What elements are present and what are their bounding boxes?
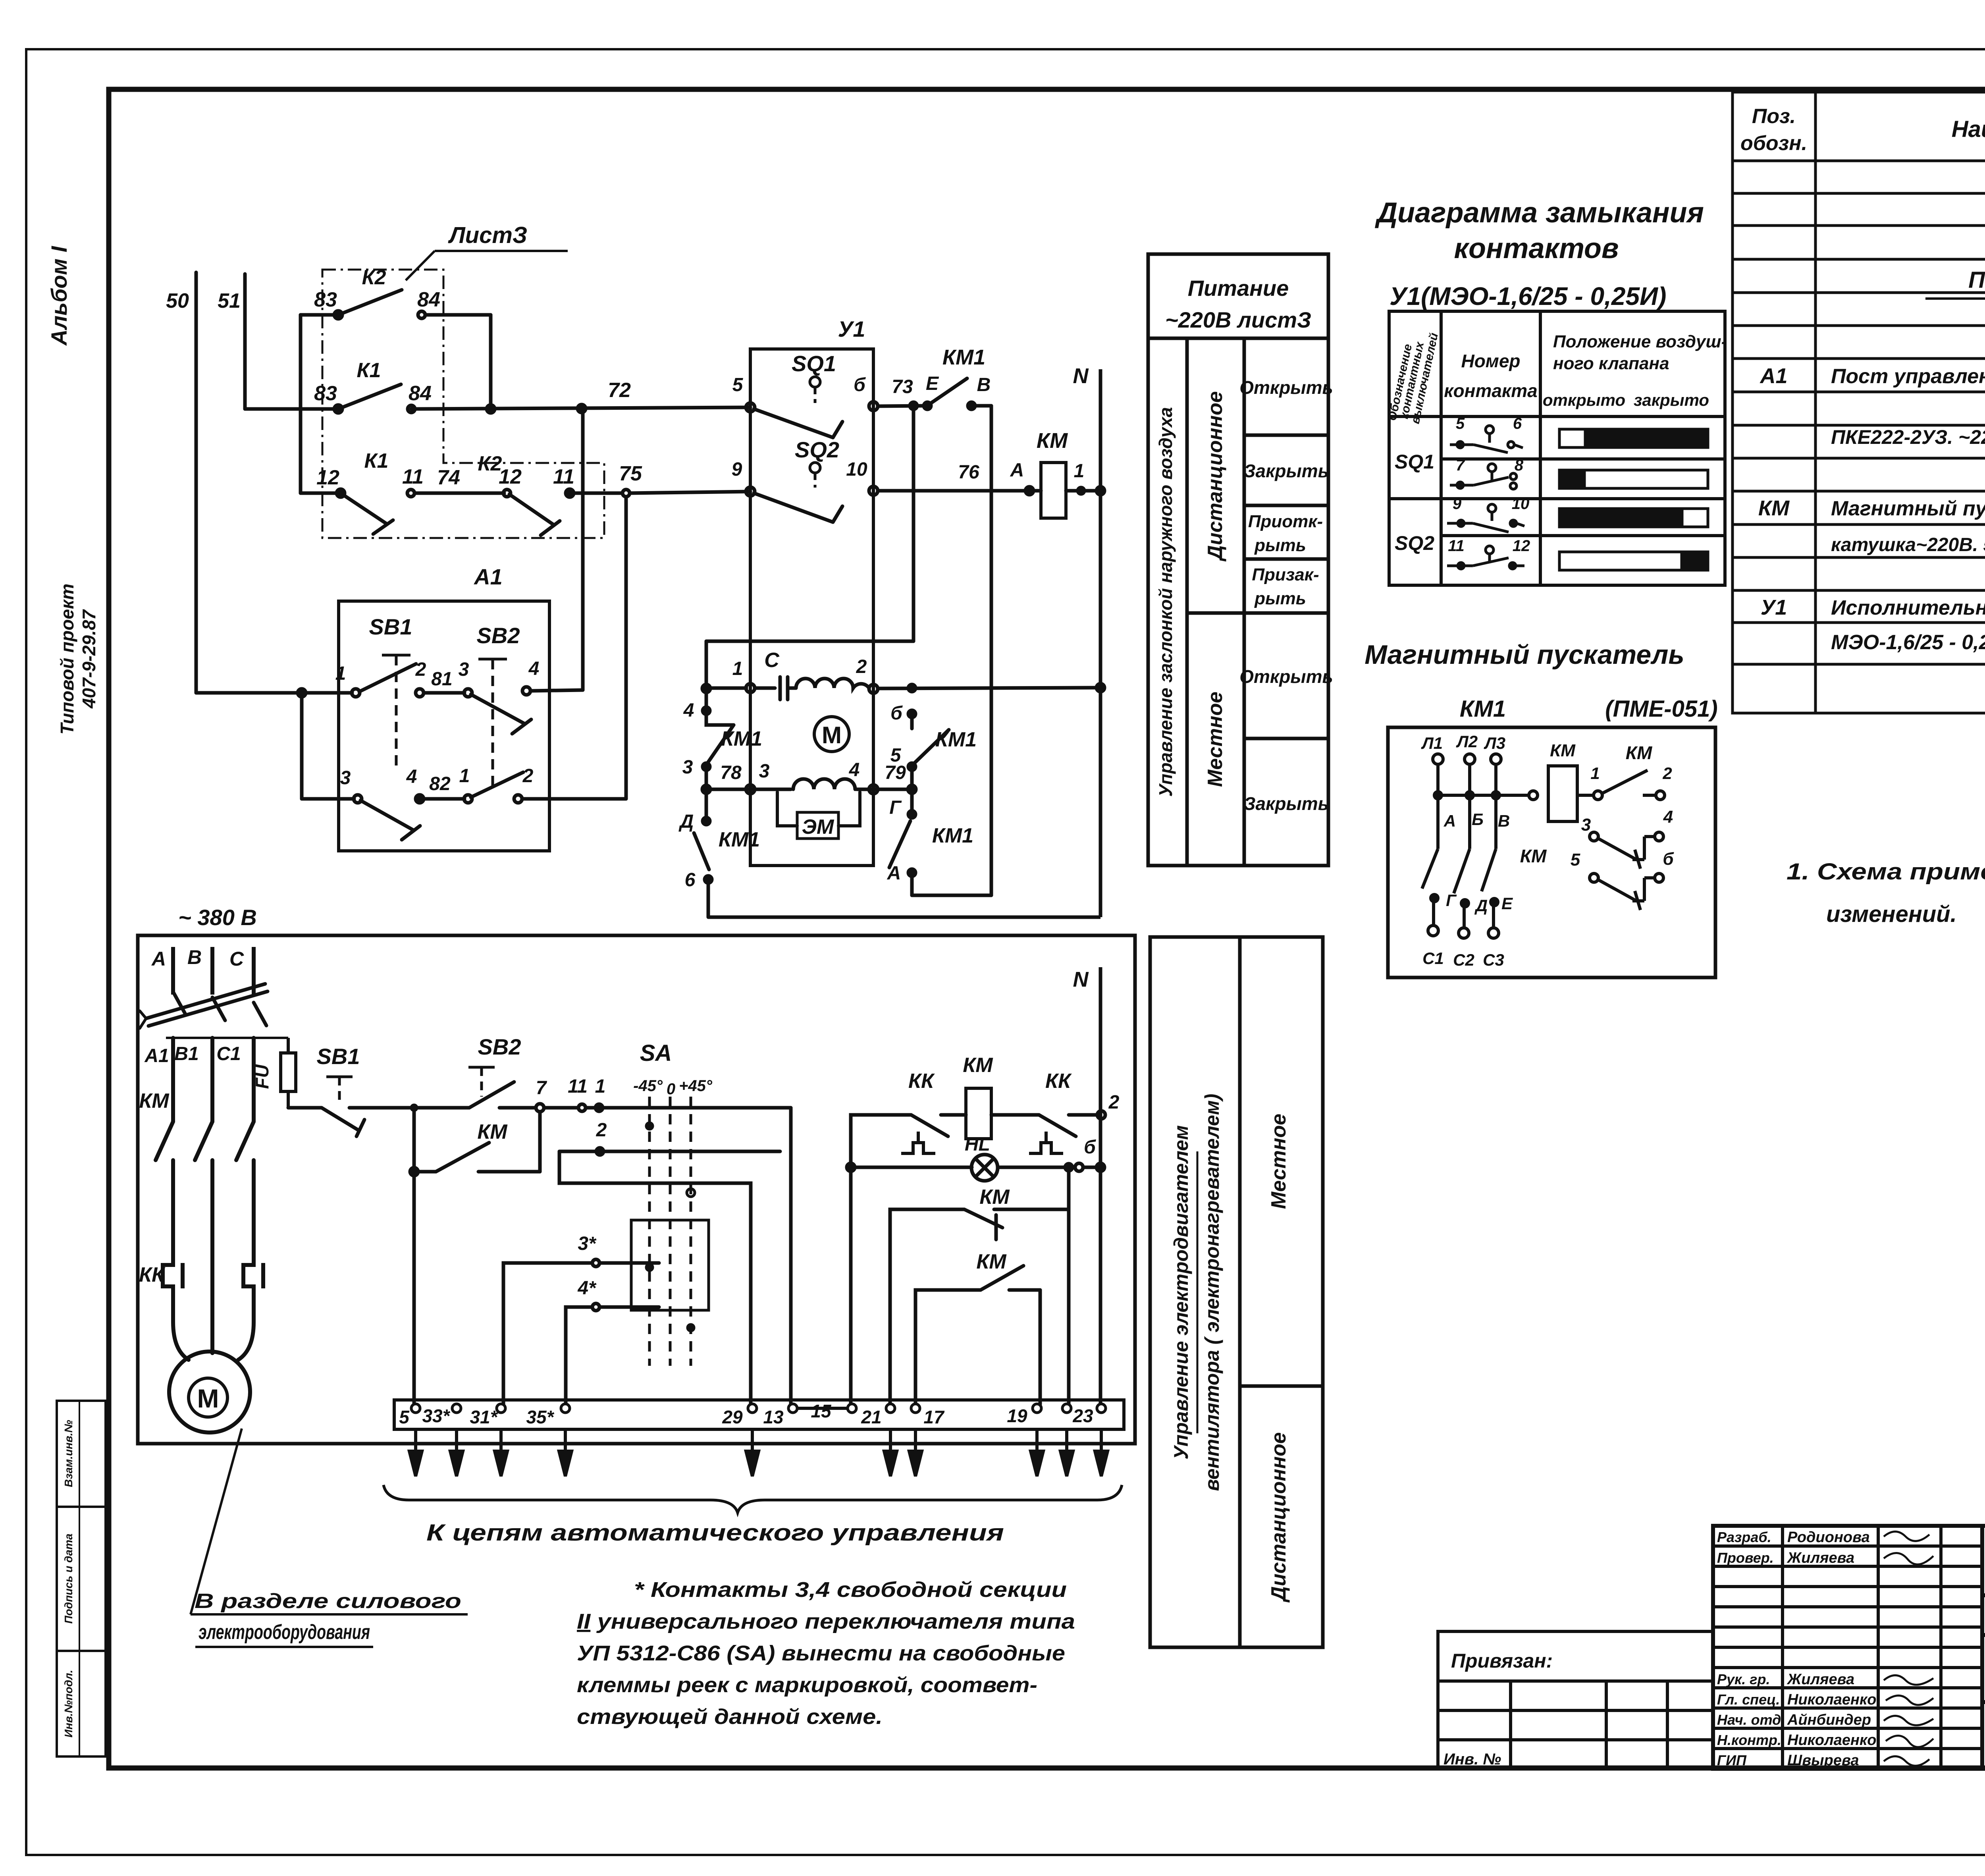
svg-text:FU: FU	[252, 1064, 272, 1089]
SA row 2	[559, 1148, 780, 1404]
svg-text:2: 2	[1108, 1092, 1120, 1113]
signatures squiggles	[1884, 1532, 1933, 1766]
svg-text:23: 23	[1072, 1406, 1093, 1426]
svg-text:84: 84	[409, 382, 432, 405]
position bars	[1559, 429, 1708, 570]
svg-text:Инв.№подл.: Инв.№подл.	[62, 1670, 75, 1738]
svg-text:Магнитный пускатель: Магнитный пускатель	[1364, 640, 1684, 670]
svg-text:35*: 35*	[526, 1407, 554, 1427]
svg-text:3: 3	[682, 757, 693, 778]
feed panel (Питание ~220В лист3)	[1148, 254, 1328, 866]
button SB1 stop	[288, 1108, 410, 1136]
svg-text:КМ: КМ	[477, 1120, 508, 1143]
svg-text:С2: С2	[1453, 951, 1474, 969]
button SB2 start	[418, 1082, 544, 1112]
svg-text:КМ1: КМ1	[935, 728, 977, 751]
svg-text:19: 19	[1007, 1406, 1027, 1426]
svg-text:21: 21	[861, 1407, 881, 1427]
lower contacts row of A1	[302, 497, 626, 840]
svg-text:Е: Е	[926, 373, 939, 394]
svg-text:11: 11	[402, 465, 424, 488]
terminal circles	[411, 1404, 1106, 1413]
svg-text:У1: У1	[1761, 596, 1787, 619]
svg-text:7: 7	[536, 1078, 547, 1099]
svg-text:12: 12	[316, 466, 339, 489]
svg-text:Дистанционное: Дистанционное	[1204, 391, 1227, 561]
svg-text:76: 76	[958, 462, 979, 483]
svg-text:КМ1: КМ1	[721, 727, 762, 750]
svg-text:клеммы реек с маркировкой, соо: клеммы реек с маркировкой, соответ-	[577, 1673, 1037, 1697]
wire B loop	[912, 406, 991, 895]
svg-text:Местное: Местное	[1204, 692, 1227, 787]
row KK-KM-KK	[851, 1111, 1105, 1404]
svg-text:15: 15	[811, 1401, 832, 1421]
bottom wire to N	[708, 916, 1100, 919]
svg-text:~220В листЗ: ~220В листЗ	[1165, 307, 1311, 332]
svg-text:Управление заслонкой наружно: Управление заслонкой наружного воздуха	[1155, 407, 1176, 796]
svg-text:Наименование: Наименование	[1952, 116, 1985, 142]
svg-text:5: 5	[399, 1407, 410, 1427]
terminal strip	[394, 1400, 1124, 1429]
svg-text:74: 74	[437, 466, 460, 489]
svg-text:3*: 3*	[578, 1233, 597, 1254]
thermal KK symbols	[901, 1132, 1063, 1153]
svg-text:SQ2: SQ2	[1395, 532, 1434, 554]
svg-text:КМ: КМ	[1626, 742, 1653, 763]
svg-text:КМ: КМ	[963, 1054, 993, 1077]
svg-text:78: 78	[720, 762, 742, 783]
svg-text:У1: У1	[838, 316, 865, 341]
svg-text:КМ1: КМ1	[719, 828, 760, 851]
svg-text:Жиляева: Жиляева	[1786, 1550, 1854, 1566]
svg-text:Управление электродвигателем: Управление электродвигателем	[1170, 1125, 1192, 1460]
svg-text:КК: КК	[139, 1263, 166, 1286]
svg-text:ствующей данной схеме.: ствующей данной схеме.	[577, 1705, 883, 1729]
fan motor control panel	[1150, 937, 1323, 1647]
svg-text:С: С	[229, 948, 244, 970]
lamp HL row	[847, 1155, 1104, 1181]
wire 73 drop	[706, 406, 913, 708]
svg-text:81: 81	[431, 669, 452, 690]
svg-text:ГИП: ГИП	[1717, 1752, 1747, 1768]
svg-text:А: А	[1443, 812, 1456, 830]
contactor coil KM power	[966, 1088, 991, 1139]
svg-text:50: 50	[166, 289, 189, 312]
contact diagram table	[1389, 311, 1725, 585]
svg-text:А: А	[887, 863, 901, 884]
svg-text:* Контакты 3,4 свободной секци: * Контакты 3,4 свободной секции	[634, 1578, 1067, 1602]
svg-text:КК: КК	[1045, 1070, 1072, 1093]
svg-text:31*: 31*	[470, 1407, 498, 1427]
svg-text:1: 1	[1074, 461, 1085, 482]
svg-text:рыть: рыть	[1254, 589, 1306, 608]
svg-text:2: 2	[522, 765, 534, 787]
svg-text:75: 75	[619, 462, 642, 485]
svg-text:Д: Д	[1474, 896, 1488, 915]
svg-text:КМ: КМ	[1550, 741, 1576, 760]
svg-text:С1: С1	[216, 1043, 241, 1064]
svg-text:А: А	[1010, 460, 1024, 481]
svg-text:Разраб.: Разраб.	[1717, 1529, 1771, 1545]
title block	[1713, 1526, 1985, 1769]
svg-text:Жиляева: Жиляева	[1786, 1671, 1854, 1688]
svg-text:-45°: -45°	[633, 1077, 663, 1095]
svg-text:Е: Е	[1501, 894, 1513, 913]
svg-text:3: 3	[459, 659, 469, 680]
svg-text:Пост управления кнопочный: Пост управления кнопочный	[1831, 365, 1985, 388]
svg-text:10: 10	[846, 459, 867, 480]
svg-text:83: 83	[314, 382, 337, 405]
svg-text:Л1: Л1	[1421, 734, 1443, 752]
svg-text:SB1: SB1	[317, 1044, 360, 1069]
svg-text:8: 8	[1515, 457, 1524, 474]
svg-text:ПКЕ222-2УЗ. ~220В ТУ16.526.2: ПКЕ222-2УЗ. ~220В ТУ16.526.216-71	[1831, 426, 1985, 448]
svg-text:КМ: КМ	[1520, 846, 1547, 866]
svg-text:Инв. №: Инв. №	[1443, 1751, 1501, 1768]
svg-text:УП 5312-С86 (SA) вынести на св: УП 5312-С86 (SA) вынести на свободные	[577, 1641, 1065, 1665]
leader to note	[191, 1429, 468, 1614]
aux contact 3-4	[1590, 832, 1663, 869]
svg-text:17: 17	[923, 1407, 945, 1427]
svg-text:84: 84	[417, 288, 440, 311]
svg-text:вентилятора ( электронагревате: вентилятора ( электронагревателем)	[1201, 1094, 1223, 1491]
svg-text:КМ: КМ	[1758, 496, 1790, 520]
svg-text:Б: Б	[1472, 810, 1484, 829]
svg-text:Взам.инв.№: Взам.инв.№	[62, 1420, 75, 1487]
svg-text:29: 29	[722, 1407, 743, 1427]
svg-text:Дистанционное: Дистанционное	[1267, 1432, 1290, 1602]
svg-text:Местное: Местное	[1267, 1114, 1290, 1209]
contact KM power poles	[156, 1122, 173, 1160]
motor M	[169, 1352, 250, 1433]
node 75	[622, 490, 630, 497]
svg-text:Н.контр.: Н.контр.	[1717, 1732, 1781, 1748]
svg-text:9: 9	[732, 459, 742, 480]
svg-text:Николаенко: Николаенко	[1787, 1691, 1876, 1708]
wire N	[1099, 369, 1102, 917]
svg-text:В: В	[187, 946, 202, 968]
svg-text:10: 10	[1512, 495, 1530, 513]
svg-text:закрыто: закрыто	[1634, 391, 1709, 409]
limit switch SQ2	[746, 486, 878, 522]
svg-text:SB2: SB2	[478, 1034, 521, 1059]
svg-text:КК: КК	[908, 1070, 935, 1093]
svg-text:контактов: контактов	[1454, 233, 1619, 264]
svg-text:1. Схема применима для систем: 1. Схема применима для систем П1, П2, П3…	[1786, 859, 1985, 885]
svg-text:В: В	[1498, 812, 1510, 830]
node j72b	[578, 405, 586, 413]
svg-text:72: 72	[608, 379, 631, 402]
svg-text:У1(МЭО-1,6/25 - 0,25И): У1(МЭО-1,6/25 - 0,25И)	[1389, 282, 1666, 310]
svg-text:5: 5	[732, 374, 744, 395]
svg-text:КМ1: КМ1	[932, 824, 973, 847]
svg-text:Типовой проект: Типовой проект	[57, 584, 77, 735]
svg-text:Положение воздуш-: Положение воздуш-	[1553, 332, 1727, 351]
svg-text:ЭМ: ЭМ	[802, 816, 834, 839]
svg-text:12: 12	[1513, 537, 1530, 555]
wire 76 and contactor coil KM	[878, 487, 1041, 495]
svg-text:В: В	[977, 374, 991, 395]
svg-text:Гл. спец.: Гл. спец.	[1717, 1691, 1780, 1708]
junction	[410, 1104, 418, 1112]
limit switch SQ1	[746, 402, 878, 438]
svg-text:Закрыть: Закрыть	[1244, 793, 1329, 814]
svg-text:А1: А1	[144, 1045, 169, 1066]
svg-text:К2: К2	[362, 266, 386, 289]
svg-text:б: б	[890, 703, 903, 724]
svg-text:Диаграмма замыкания: Диаграмма замыкания	[1374, 197, 1704, 229]
svg-text:К1: К1	[364, 449, 389, 472]
svg-text:2: 2	[596, 1120, 607, 1141]
capacitor C row	[702, 677, 1104, 700]
thermal elements KK	[163, 1258, 263, 1294]
svg-text:К1: К1	[357, 359, 381, 382]
button SB1	[196, 664, 464, 697]
svg-text:электрооборудования: электрооборудования	[198, 1621, 370, 1644]
button SB2	[464, 687, 583, 734]
svg-text:SQ1: SQ1	[1395, 451, 1434, 473]
svg-text:2: 2	[1662, 764, 1672, 783]
wire to terminal 5	[412, 1172, 416, 1404]
right branch contacts KM1	[889, 710, 949, 895]
svg-text:N: N	[1073, 364, 1089, 388]
svg-text:М: М	[197, 1384, 219, 1413]
svg-text:б: б	[854, 374, 866, 395]
svg-text:В разделе силового: В разделе силового	[195, 1590, 461, 1613]
svg-text:Призак-: Призак-	[1252, 565, 1319, 584]
Privyazan box	[1438, 1631, 1713, 1769]
svg-text:Нач. отд.: Нач. отд.	[1717, 1712, 1785, 1728]
wires into motor	[173, 1294, 254, 1360]
power box	[138, 935, 1135, 1444]
svg-text:В1: В1	[174, 1043, 198, 1064]
wire bus 51	[243, 274, 247, 409]
contact K1 83-84	[334, 405, 342, 413]
contact KM 1-2	[1577, 770, 1665, 800]
svg-text:4: 4	[528, 658, 540, 679]
svg-text:3: 3	[340, 767, 351, 789]
svg-text:К цепям автоматического управл: К цепям автоматического управления	[426, 1520, 1004, 1546]
svg-text:4: 4	[1663, 807, 1673, 827]
svg-text:КМ: КМ	[1037, 429, 1068, 453]
svg-text:Л2: Л2	[1456, 732, 1478, 751]
svg-text:С1: С1	[1422, 949, 1444, 968]
svg-text:А1: А1	[1759, 364, 1787, 388]
node j72a	[487, 405, 495, 413]
SA row 3	[503, 1259, 659, 1404]
svg-text:II универсального переключател: II универсального переключателя типа	[577, 1610, 1075, 1633]
svg-text:9: 9	[1453, 495, 1462, 513]
svg-text:изменений.: изменений.	[1826, 901, 1957, 927]
svg-text:SB1: SB1	[369, 614, 412, 639]
svg-text:ного клапана: ного клапана	[1553, 354, 1669, 373]
SA free section box	[631, 1220, 709, 1310]
dash-dot boundary List3	[322, 270, 604, 538]
svg-text:Магнитный пускатель ПМЕ-051: Магнитный пускатель ПМЕ-051	[1831, 497, 1985, 520]
svg-text:82: 82	[429, 773, 451, 794]
aux contact 5-6	[1590, 873, 1663, 910]
contact K1 12-11	[301, 492, 341, 495]
svg-text:6: 6	[685, 870, 696, 891]
svg-text:А: А	[151, 948, 166, 970]
svg-text:6: 6	[1513, 415, 1522, 432]
svg-text:SQ2: SQ2	[795, 437, 839, 462]
fuse FU	[281, 1038, 296, 1108]
svg-text:5: 5	[1571, 850, 1580, 870]
svg-text:1: 1	[1590, 764, 1600, 783]
svg-text:~ 380 В: ~ 380 В	[178, 905, 257, 930]
svg-text:Номер: Номер	[1461, 351, 1520, 371]
svg-text:Приотк-: Приотк-	[1248, 512, 1323, 531]
svg-text:7: 7	[1456, 457, 1465, 474]
svg-text:SA: SA	[640, 1040, 672, 1066]
svg-text:1: 1	[459, 765, 470, 787]
arrows to automation	[409, 1429, 1108, 1476]
svg-text:МЭО-1,6/25 - 0,25И: МЭО-1,6/25 - 0,25И	[1831, 631, 1985, 654]
aux contact KM (to terminals 17-19)	[915, 1266, 1040, 1404]
svg-text:Провер.: Провер.	[1717, 1550, 1774, 1566]
bridge 13-15	[797, 1407, 848, 1410]
SA row 4	[566, 1303, 659, 1404]
svg-text:2: 2	[856, 656, 867, 677]
svg-text:33*: 33*	[422, 1406, 450, 1426]
brake EM branch	[777, 792, 860, 826]
svg-text:5: 5	[1456, 415, 1465, 432]
svg-text:1: 1	[732, 658, 743, 679]
contact symbols col2	[1447, 426, 1524, 569]
svg-text:4: 4	[683, 700, 694, 721]
svg-text:Рук. гр.: Рук. гр.	[1717, 1671, 1770, 1687]
svg-text:Швырева: Швырева	[1787, 1752, 1859, 1769]
svg-text:4*: 4*	[577, 1278, 597, 1299]
svg-text:А1: А1	[473, 564, 503, 589]
winding 3-4 row	[702, 779, 916, 794]
svg-text:HL: HL	[965, 1134, 990, 1155]
svg-text:рыть: рыть	[1254, 536, 1306, 555]
svg-text:КМ: КМ	[139, 1089, 170, 1112]
svg-text:КМ1: КМ1	[1460, 696, 1506, 722]
svg-text:73: 73	[892, 376, 913, 397]
contact K2 83-84	[301, 313, 338, 317]
svg-text:М: М	[822, 722, 842, 748]
svg-text:N: N	[1073, 968, 1089, 991]
wire bus 50	[195, 272, 198, 693]
wire left jog	[299, 315, 303, 493]
contact KM1 E-B	[878, 378, 991, 409]
svg-text:ЛистЗ: ЛистЗ	[448, 222, 527, 248]
svg-text:Г: Г	[1446, 891, 1457, 910]
svg-text:(ПМЕ-051): (ПМЕ-051)	[1605, 696, 1717, 722]
starter KM1 box	[1388, 727, 1715, 978]
svg-text:51: 51	[218, 289, 241, 312]
svg-text:Поз.: Поз.	[1752, 105, 1796, 128]
svg-text:4: 4	[849, 760, 860, 781]
wire: L stems to bus	[1436, 764, 1440, 795]
svg-text:0: 0	[667, 1080, 675, 1098]
svg-text:Питание: Питание	[1188, 276, 1289, 301]
svg-text:Подпись и дата: Подпись и дата	[62, 1534, 75, 1624]
svg-text:12: 12	[499, 465, 522, 488]
svg-text:С3: С3	[1483, 951, 1504, 969]
svg-text:SQ1: SQ1	[792, 351, 836, 376]
svg-text:11: 11	[1448, 537, 1465, 555]
svg-text:Привязан:: Привязан:	[1451, 1650, 1553, 1672]
actuator U1 box	[750, 349, 873, 866]
svg-text:Альбом I: Альбом I	[46, 246, 71, 346]
svg-text:1: 1	[595, 1076, 606, 1097]
wire 72 run	[245, 407, 338, 411]
svg-text:2: 2	[415, 659, 426, 680]
svg-text:б: б	[1663, 849, 1674, 869]
svg-text:Л3: Л3	[1484, 734, 1505, 752]
wire riser 74->72	[581, 409, 585, 690]
svg-text:КМ1: КМ1	[942, 345, 985, 369]
main contacts of KM (3 poles)	[1422, 795, 1499, 938]
motor M of actuator	[814, 717, 849, 752]
aux contact KM self-hold	[410, 1108, 540, 1176]
svg-text:4: 4	[406, 766, 417, 787]
svg-text:Г: Г	[889, 797, 902, 818]
push-button post A1 box	[339, 601, 549, 851]
svg-text:Айнбиндер: Айнбиндер	[1787, 1712, 1871, 1728]
svg-text:3: 3	[1581, 815, 1591, 835]
svg-text:б: б	[1084, 1137, 1096, 1158]
svg-text:катушка~220В. 50Гц ОСТ16053Б00: катушка~220В. 50Гц ОСТ16053Б001-71	[1831, 534, 1985, 555]
svg-text:Николаенко: Николаенко	[1787, 1732, 1876, 1749]
left margin stamp boxes	[57, 1401, 106, 1756]
svg-text:1: 1	[335, 663, 346, 684]
svg-text:3: 3	[759, 761, 770, 782]
svg-text:По месту: По месту	[1968, 267, 1985, 293]
svg-text:407-9-29.87: 407-9-29.87	[79, 609, 99, 709]
left branch contacts KM1	[694, 707, 734, 917]
svg-text:Закрыть: Закрыть	[1244, 461, 1329, 481]
brace	[384, 1485, 1122, 1513]
wire: coil bus	[1438, 794, 1529, 797]
svg-text:Открыть: Открыть	[1239, 377, 1333, 398]
svg-text:5: 5	[890, 745, 902, 766]
knife switch	[140, 984, 268, 1028]
aux contact KM (to terminal 21)	[890, 1164, 1072, 1404]
N wire of power	[1099, 967, 1102, 1404]
svg-text:КМ: КМ	[976, 1250, 1007, 1273]
svg-text:открыто: открыто	[1543, 391, 1625, 409]
svg-text:11: 11	[553, 465, 574, 488]
phase drops to KM contacts	[156, 1038, 254, 1353]
svg-text:контакта: контакта	[1444, 380, 1537, 401]
svg-text:SB2: SB2	[477, 623, 520, 648]
components list table	[1733, 92, 1985, 713]
svg-text:обозн.: обозн.	[1740, 132, 1807, 155]
svg-text:С: С	[764, 649, 780, 672]
contact K2 12-11	[503, 490, 511, 497]
svg-text:Родионова: Родионова	[1787, 1529, 1870, 1546]
svg-text:КМ: КМ	[979, 1186, 1010, 1209]
svg-text:Исполнительный механизм: Исполнительный механизм	[1831, 596, 1985, 619]
svg-text:+45°: +45°	[679, 1077, 713, 1095]
svg-text:13: 13	[763, 1407, 784, 1427]
svg-text:83: 83	[314, 288, 337, 311]
svg-text:11: 11	[568, 1076, 588, 1097]
svg-text:Д: Д	[678, 811, 694, 832]
svg-text:Открыть: Открыть	[1239, 666, 1333, 687]
coil KM	[1548, 766, 1577, 821]
